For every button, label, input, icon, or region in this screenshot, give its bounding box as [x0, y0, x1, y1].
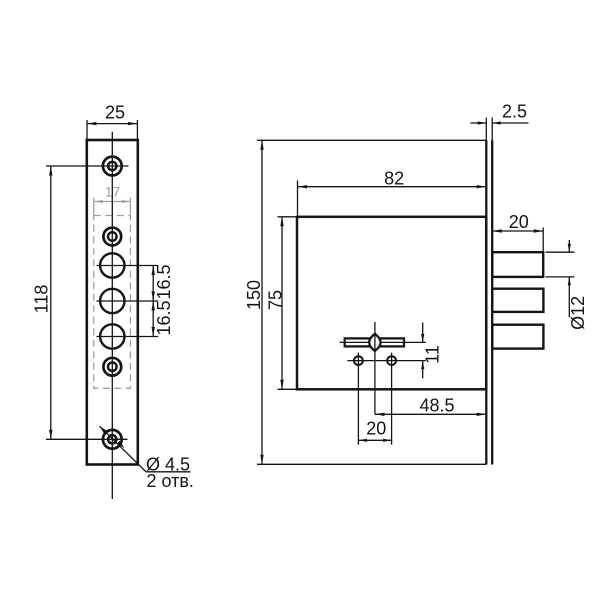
svg-text:16.5: 16.5: [154, 300, 174, 335]
key vertical centerline: [374, 322, 376, 414]
75 dim line: [281, 217, 283, 389]
2.5 dim lines: [471, 122, 487, 124]
svg-text:25: 25: [105, 103, 125, 123]
150 top extension line: [257, 139, 486, 141]
key hole horizontal centerline: [340, 341, 426, 343]
118 dim line: [50, 166, 52, 439]
left mounting hole: [354, 356, 363, 365]
25 dim extension lines: [86, 120, 88, 140]
svg-text:20: 20: [366, 418, 386, 438]
svg-text:48.5: 48.5: [419, 395, 454, 415]
20 bottom dim line: [358, 439, 391, 441]
bolt 2: [492, 289, 543, 312]
faceplate outline: [87, 140, 138, 465]
150 dim line: [261, 140, 263, 464]
bottom screw hole: [103, 430, 122, 449]
small hole upper: [103, 228, 121, 246]
diameter 12 dim lines: [568, 240, 570, 252]
bolt 1: [492, 252, 543, 277]
svg-text:11: 11: [423, 345, 443, 364]
faceplate side view left line: [485, 140, 487, 464]
diameter 12 extension lines: [546, 251, 575, 253]
11 dim lines: [422, 323, 424, 343]
17 dim line and arrows (gray): [94, 201, 130, 203]
17 extension lines (gray): [93, 198, 95, 216]
svg-text:75: 75: [266, 290, 286, 310]
leader line to bottom screw hole: [100, 426, 147, 472]
svg-text:118: 118: [32, 285, 52, 314]
mounting holes centerline: [347, 360, 425, 362]
large hole 3 centerline / 16.5 extension: [97, 336, 159, 338]
large hole 1 centerline / 16.5 extension: [97, 265, 159, 267]
svg-text:16.5: 16.5: [154, 264, 174, 299]
dashed lock-body outline behind faceplate (gray): [94, 216, 131, 389]
svg-text:Ø12: Ø12: [568, 296, 588, 330]
48.5 dim line: [375, 413, 486, 415]
20 top extension line: [542, 228, 544, 253]
key middle lens: [369, 334, 380, 351]
faceplate centerline: [111, 132, 113, 499]
svg-text:2 отв.: 2 отв.: [147, 471, 194, 491]
right mounting hole extension: [391, 353, 393, 445]
16.5 dim line: [152, 266, 154, 337]
top screw hole: [103, 157, 122, 176]
svg-text:150: 150: [244, 280, 264, 310]
150 bottom extension line: [257, 463, 486, 465]
svg-text:82: 82: [384, 168, 404, 188]
75 bottom extension line: [278, 388, 298, 390]
key bar outline: [345, 338, 404, 346]
left mounting hole extension: [357, 353, 359, 445]
svg-text:20: 20: [509, 212, 529, 232]
faceplate side view right line: [491, 140, 493, 464]
lock body outline: [297, 217, 486, 389]
large hole 2 centerline / 16.5 extension: [97, 300, 159, 302]
bottom screw hole crosshair / 118 extension: [46, 438, 128, 440]
large hole 2: [100, 289, 124, 313]
82 left extension line: [297, 181, 299, 217]
top screw hole crosshair / 118 extension: [46, 165, 129, 167]
bolt 3: [492, 325, 543, 349]
25 dim line: [87, 123, 137, 125]
svg-text:2.5: 2.5: [502, 102, 527, 122]
82 dim line: [298, 186, 487, 188]
20 top dim line: [492, 230, 543, 232]
75 top extension line: [278, 216, 298, 218]
large hole 1: [100, 253, 124, 277]
right mounting hole: [387, 356, 396, 365]
small hole lower: [103, 358, 121, 376]
large hole 3: [100, 324, 124, 348]
2.5 extension lines: [485, 118, 487, 141]
